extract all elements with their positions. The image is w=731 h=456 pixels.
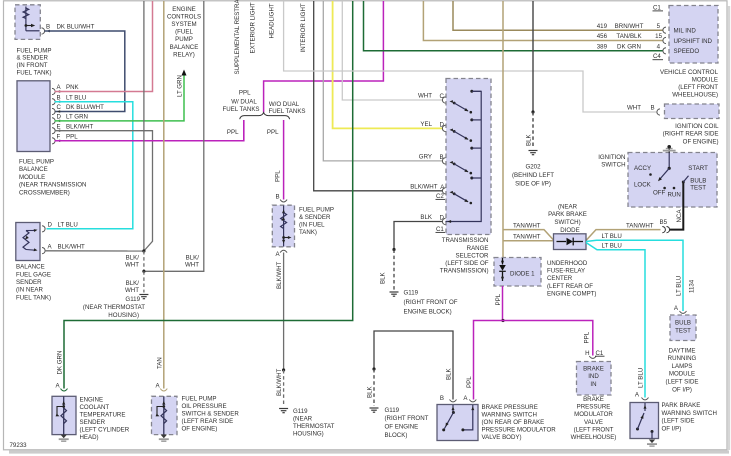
svg-text:LOCK: LOCK (634, 182, 652, 189)
svg-text:HEAD): HEAD) (80, 434, 99, 441)
engine coolant temperature sender box (52, 396, 76, 434)
svg-text:79233: 79233 (10, 442, 28, 449)
wire PPL to brake pressure warning switch pin A (474, 321, 504, 400)
svg-text:B: B (440, 395, 444, 402)
park brake switch diode box (554, 234, 587, 250)
svg-text:MIL IND: MIL IND (674, 28, 697, 35)
wire LT BLU diode to bulb test input (586, 240, 683, 311)
wire LT BLU diode to park brake switch (586, 243, 645, 398)
svg-text:B: B (57, 94, 61, 101)
selector moving contact (450, 161, 453, 164)
svg-text:BLK: BLK (445, 367, 452, 380)
svg-text:TEST: TEST (690, 185, 706, 192)
svg-text:TAN/WHT: TAN/WHT (513, 222, 541, 229)
svg-text:WHT: WHT (627, 105, 641, 112)
svg-text:TRANSMISSION): TRANSMISSION) (440, 268, 489, 275)
connector B5 double arc (662, 227, 665, 233)
wire TAN/BLK 456 to VCM pin 15 (423, 1, 662, 41)
svg-text:(LEFT FRONT: (LEFT FRONT (678, 84, 718, 91)
selector fixed contact (470, 118, 473, 121)
svg-text:DK BLU/WHT: DK BLU/WHT (57, 24, 95, 31)
svg-text:(NEAR TRANSMISSION: (NEAR TRANSMISSION (19, 182, 86, 189)
svg-text:MODULE: MODULE (692, 76, 718, 83)
svg-text:IGNITION: IGNITION (598, 154, 625, 161)
wire LT BLU pin B to balance sender pin D (47, 102, 133, 229)
svg-text:BLK/: BLK/ (126, 255, 140, 262)
svg-text:VALVE BODY): VALVE BODY) (482, 434, 522, 441)
svg-text:ACCY: ACCY (634, 165, 651, 172)
svg-text:FUEL TANKS: FUEL TANKS (268, 108, 305, 115)
pin A PNK of balance module (52, 88, 55, 94)
svg-text:G119: G119 (385, 407, 400, 414)
pin A of in-tank pump (280, 250, 287, 252)
svg-text:LT BLU: LT BLU (58, 222, 78, 229)
svg-text:(LEFT FRONT: (LEFT FRONT (574, 426, 614, 433)
wire PPL to brake pressure modulator valve (503, 321, 593, 356)
svg-text:RUNNING: RUNNING (668, 355, 697, 362)
svg-text:WHT: WHT (125, 287, 139, 294)
wire DK GRN rail to coolant sender (64, 1, 353, 389)
rail BLK/WHT to G119 near thermostat (143, 1, 145, 251)
svg-text:(LEFT CYLINDER: (LEFT CYLINDER (80, 426, 130, 433)
ground G119 near thermostat housing (139, 294, 148, 296)
svg-text:SELECTOR: SELECTOR (456, 252, 490, 259)
svg-text:PRESSURE MODULATOR: PRESSURE MODULATOR (482, 427, 557, 434)
pin B of front fuel pump (42, 28, 45, 34)
wire WHT to ignition coil (284, 1, 657, 112)
svg-text:& SENDER: & SENDER (299, 214, 331, 221)
svg-text:SWITCH & SENDER: SWITCH & SENDER (182, 411, 240, 418)
svg-text:BULB: BULB (675, 320, 691, 327)
svg-text:(LEFT REAR SIDE: (LEFT REAR SIDE (182, 418, 234, 425)
svg-text:DAYTIME: DAYTIME (669, 347, 696, 354)
svg-text:(IN NEAR: (IN NEAR (16, 287, 44, 294)
rail BLK to G202 (532, 1, 534, 112)
pin D LT BLU of balance sender (42, 226, 45, 232)
svg-text:C: C (57, 104, 62, 111)
wire BRN/WHT 419 to VCM pin 5 (453, 1, 663, 30)
svg-text:419: 419 (597, 23, 608, 30)
svg-text:PPL: PPL (239, 89, 251, 96)
svg-text:(RIGHT FRONT OF: (RIGHT FRONT OF (404, 299, 458, 306)
svg-text:TAN/WHT: TAN/WHT (626, 222, 654, 229)
warning switch contacts (452, 405, 454, 413)
svg-text:TAN/WHT: TAN/WHT (513, 234, 541, 241)
svg-text:MODULE: MODULE (669, 371, 695, 378)
svg-text:SIDE OF I/P): SIDE OF I/P) (515, 180, 551, 187)
balance fuel gage sender box (16, 223, 40, 261)
svg-text:BLK: BLK (526, 133, 533, 146)
svg-text:(RIGHT REAR SIDE: (RIGHT REAR SIDE (663, 131, 719, 138)
svg-text:DK BLU/WHT: DK BLU/WHT (66, 104, 104, 111)
svg-text:CONTROLS: CONTROLS (167, 13, 201, 20)
splice node BLK (531, 110, 534, 113)
svg-text:389: 389 (597, 43, 608, 50)
ignition coil pin arc (657, 109, 660, 115)
rail TAN to oil pressure sender (163, 1, 165, 389)
coolant sender thermistor symbol (63, 396, 65, 434)
svg-text:IND: IND (588, 373, 599, 380)
fuel pump & sender (in front fuel tank) box (15, 5, 40, 40)
svg-text:LT BLU: LT BLU (66, 94, 86, 101)
svg-text:PPL: PPL (275, 170, 282, 182)
diode 1 symbol (501, 260, 504, 263)
in-tank pump symbol (283, 206, 285, 247)
DIODE 1 box in underhood fuse-relay center (494, 258, 541, 287)
svg-text:PARK BRAKE: PARK BRAKE (662, 402, 701, 409)
svg-text:COOLANT: COOLANT (80, 404, 110, 411)
svg-text:ENGINE BLOCK): ENGINE BLOCK) (404, 309, 452, 316)
wire PPL pin F to dual-tank brace (55, 120, 244, 141)
svg-text:TEST: TEST (675, 328, 691, 335)
svg-text:BALANCE: BALANCE (19, 166, 48, 173)
PPL splice node (501, 319, 504, 322)
svg-text:BLK/WHT: BLK/WHT (276, 368, 283, 396)
selector moving contact (450, 100, 453, 103)
svg-text:BLK/WHT: BLK/WHT (58, 243, 86, 250)
svg-text:F: F (57, 134, 61, 141)
svg-text:SWITCH): SWITCH) (554, 219, 580, 226)
coolant sender chassis ground (61, 435, 67, 439)
svg-text:FUEL PUMP: FUEL PUMP (17, 47, 52, 54)
svg-text:PPL: PPL (495, 293, 502, 305)
pin F PPL of balance module (52, 138, 55, 144)
pin A arc (469, 400, 476, 402)
svg-text:SWITCH: SWITCH (601, 162, 625, 169)
pin A BLK/WHT of balance sender (42, 248, 45, 254)
svg-text:MODULE: MODULE (19, 174, 45, 181)
svg-text:FUEL PUMP: FUEL PUMP (19, 159, 54, 166)
svg-text:LT BLU: LT BLU (675, 276, 682, 296)
wire NCA from bulb test contact to B5 (669, 183, 683, 230)
svg-text:D: D (48, 222, 53, 229)
svg-text:FUEL TANKS: FUEL TANKS (222, 106, 259, 113)
svg-text:B: B (46, 24, 50, 31)
fuel pump oil pressure switch & sender box (152, 396, 178, 434)
svg-text:G119: G119 (293, 408, 308, 415)
svg-text:TAN: TAN (157, 357, 164, 369)
wire TAN/WHT upper branch to diode and B5 (503, 230, 554, 240)
svg-text:UPSHIFT IND: UPSHIFT IND (674, 38, 713, 45)
fuel pump balance module box (17, 81, 50, 152)
svg-text:BLK/WHT: BLK/WHT (410, 183, 438, 190)
svg-text:WHT: WHT (418, 93, 432, 100)
svg-text:LT GRN: LT GRN (177, 75, 184, 97)
selector moving contact (450, 128, 453, 131)
svg-text:OFF: OFF (653, 190, 666, 197)
svg-text:DK GRN: DK GRN (57, 351, 64, 375)
park brake warning switch pin arc (642, 398, 649, 400)
svg-text:(NEAR: (NEAR (558, 203, 578, 210)
svg-text:(RIGHT FRONT: (RIGHT FRONT (385, 415, 429, 422)
svg-text:BLK/WHT: BLK/WHT (276, 261, 283, 289)
svg-text:OF ENGINE: OF ENGINE (385, 424, 419, 431)
park brake switch chassis ground (649, 440, 655, 444)
svg-text:B5: B5 (660, 219, 668, 226)
VCM pin arcs (663, 27, 666, 33)
svg-text:PPL: PPL (227, 129, 239, 136)
svg-text:THERMOSTAT: THERMOSTAT (293, 423, 335, 430)
wire BLK selector pin D to G119 (394, 222, 443, 250)
fuel pump & sender (in fuel tank) box (272, 205, 294, 247)
svg-text:TEMPERATURE: TEMPERATURE (80, 411, 126, 418)
svg-text:RELAY): RELAY) (173, 51, 195, 58)
svg-text:LT GRN: LT GRN (66, 114, 88, 121)
svg-text:CENTER: CENTER (547, 275, 573, 282)
svg-text:INTERIOR LIGHT: INTERIOR LIGHT (300, 3, 307, 52)
svg-text:H: H (585, 350, 589, 357)
svg-text:BRAKE PRESSURE: BRAKE PRESSURE (482, 404, 538, 411)
svg-text:HEADLIGHT: HEADLIGHT (269, 3, 276, 38)
selector moving contact (450, 191, 453, 194)
svg-text:W/O DUAL: W/O DUAL (269, 101, 300, 108)
wire LT GRN pin D to engine controls system arrow (55, 74, 185, 121)
selector pin arcs (442, 97, 445, 103)
selector fixed contact (470, 90, 473, 93)
svg-text:RUN: RUN (668, 191, 681, 198)
svg-text:OF ENGINE): OF ENGINE) (182, 426, 218, 433)
ground G119 right front of engine block (390, 291, 399, 293)
svg-text:E: E (57, 123, 61, 130)
svg-text:FUEL TANK): FUEL TANK) (16, 294, 51, 301)
svg-text:START: START (688, 165, 708, 172)
dual fuel tanks brace (240, 113, 290, 120)
wire YEL rail to selector pin D (333, 1, 443, 128)
selector fixed contact (470, 147, 473, 150)
ignition switch box (628, 153, 717, 208)
svg-text:SPEEDO: SPEEDO (674, 48, 700, 55)
svg-text:PRESSURE: PRESSURE (577, 404, 611, 411)
pin C DK BLU/WHT of balance module (52, 108, 55, 114)
svg-text:IN: IN (590, 381, 596, 388)
wire TAN/WHT lower branch into diode (503, 240, 554, 242)
svg-text:OIL PRESSURE: OIL PRESSURE (182, 403, 227, 410)
arrow to engine controls system (181, 70, 186, 76)
wire PPL from DIODE 1 down to splice (502, 286, 504, 321)
selector fixed contact (470, 177, 473, 180)
wire WHT rail to selector pin C (342, 1, 443, 100)
svg-text:B: B (440, 154, 444, 161)
rail TAN/WHT from top to DIODE 1 (502, 1, 504, 258)
svg-text:PARK BRAKE: PARK BRAKE (548, 211, 587, 218)
svg-text:BALANCE: BALANCE (170, 44, 199, 51)
svg-text:TRANSMISSION: TRANSMISSION (442, 237, 489, 244)
svg-text:1134: 1134 (689, 279, 696, 293)
wire DK BLU/WHT from front pump B to balance module C (45, 31, 125, 112)
svg-text:BLK: BLK (420, 214, 433, 221)
svg-text:LT BLU: LT BLU (602, 243, 622, 250)
svg-text:BRN/WHT: BRN/WHT (615, 23, 644, 30)
svg-text:TANK): TANK) (299, 229, 317, 236)
svg-text:CROSSMEMBER): CROSSMEMBER) (19, 189, 70, 196)
svg-text:GRY: GRY (419, 154, 432, 161)
svg-text:G202: G202 (525, 163, 541, 170)
svg-text:B: B (651, 105, 655, 112)
front pump symbol (25, 7, 27, 31)
svg-text:LT BLU: LT BLU (602, 233, 622, 240)
svg-text:(LEFT SIDE: (LEFT SIDE (662, 418, 695, 425)
svg-text:ENGINE: ENGINE (80, 396, 104, 403)
pin E BLK/WHT of balance module (52, 128, 55, 134)
park brake warning switch box (630, 403, 659, 439)
svg-text:456: 456 (597, 33, 608, 40)
ignition coil box (665, 104, 720, 119)
pin H arc of brake pressure modulator valve (589, 356, 596, 358)
svg-text:BLK: BLK (380, 271, 387, 284)
ignition switch lever to LOCK (660, 168, 670, 179)
svg-text:WHEELHOUSE): WHEELHOUSE) (672, 92, 718, 99)
ground G119 right front of engine block (second) (370, 407, 379, 409)
pin B LT BLU of balance module (52, 99, 55, 105)
svg-text:VALVE: VALVE (584, 419, 603, 426)
wire BLK/WHT pin E down to G119 splice (55, 131, 153, 251)
svg-text:UNDERHOOD: UNDERHOOD (547, 260, 588, 267)
svg-text:PNK: PNK (66, 84, 80, 91)
transmission range selector box (446, 79, 491, 235)
rail PPL from top (264, 1, 384, 113)
ignition switch rotor line (668, 153, 670, 169)
svg-text:WARNING SWITCH: WARNING SWITCH (662, 410, 717, 417)
svg-text:(NEAR THERMOSTAT: (NEAR THERMOSTAT (83, 304, 145, 311)
svg-text:W/ DUAL: W/ DUAL (231, 99, 257, 106)
wire BLK/WHT pin A to splice (45, 250, 144, 252)
svg-text:PPL: PPL (466, 376, 473, 388)
svg-text:SENDER: SENDER (16, 279, 42, 286)
park brake switch contacts (644, 403, 646, 411)
svg-text:OF I/P): OF I/P) (662, 425, 682, 432)
svg-text:(LEFT REAR OF: (LEFT REAR OF (547, 283, 593, 290)
svg-text:BLK: BLK (367, 385, 374, 398)
svg-text:ENGINE COMPT): ENGINE COMPT) (547, 291, 596, 298)
svg-text:ENGINE: ENGINE (172, 6, 196, 13)
svg-text:YEL: YEL (420, 121, 432, 128)
svg-text:OF I/P): OF I/P) (672, 386, 692, 393)
oil pressure sender pin arc (160, 389, 167, 391)
svg-text:WHT: WHT (185, 262, 199, 269)
svg-text:NCA: NCA (676, 209, 683, 223)
svg-text:SUPPLEMENTAL RESTRAINT: SUPPLEMENTAL RESTRAINT (234, 0, 241, 75)
svg-text:(IN FRONT: (IN FRONT (17, 62, 48, 69)
svg-text:D: D (57, 114, 62, 121)
pin B of in-tank pump (280, 200, 287, 202)
svg-text:TAN/BLK: TAN/BLK (616, 33, 642, 40)
svg-text:4: 4 (657, 43, 661, 50)
oil sender chassis ground (161, 435, 167, 439)
svg-text:SENDER: SENDER (80, 419, 106, 426)
svg-text:PPL: PPL (66, 134, 78, 141)
svg-text:WHEELHOUSE): WHEELHOUSE) (571, 434, 617, 441)
coolant sender pin arc (61, 389, 68, 391)
svg-text:VEHICLE CONTROL: VEHICLE CONTROL (660, 69, 719, 76)
svg-text:FUSE-RELAY: FUSE-RELAY (547, 268, 585, 275)
wire PPL with dual tanks branch to pin F (243, 120, 245, 141)
ground G202 (529, 150, 538, 152)
brake ind in box (577, 362, 612, 396)
svg-text:BRAKE: BRAKE (583, 366, 604, 373)
wire PPL without dual tanks branch to in-tank pump (283, 120, 285, 200)
svg-text:5: 5 (657, 23, 661, 30)
svg-text:15: 15 (655, 33, 662, 40)
pin B arc (450, 400, 457, 402)
svg-text:FUEL PUMP: FUEL PUMP (182, 396, 217, 403)
svg-text:WHT: WHT (125, 262, 139, 269)
svg-text:C1: C1 (653, 4, 661, 11)
diode symbol (557, 241, 567, 243)
svg-text:BULB: BULB (690, 177, 706, 184)
wire BLK brake warning switch B to G119 (374, 331, 453, 400)
ground G119 near thermostat housing (second) (279, 408, 288, 410)
svg-text:C4: C4 (653, 53, 661, 60)
svg-text:FUEL TANK): FUEL TANK) (17, 70, 52, 77)
svg-text:HOUSING): HOUSING) (293, 431, 324, 438)
vehicle control module box (669, 6, 718, 64)
svg-text:(FUEL: (FUEL (175, 29, 193, 36)
svg-text:B: B (276, 194, 280, 201)
wire BLK/WHT rail to selector pin A (314, 1, 443, 191)
ignition switch battery feed symbol (668, 146, 670, 153)
svg-text:SYSTEM: SYSTEM (171, 21, 196, 28)
svg-text:(LEFT SIDE: (LEFT SIDE (666, 379, 699, 386)
svg-text:EXTERIOR LIGHT: EXTERIOR LIGHT (250, 2, 257, 53)
splice node (282, 368, 285, 371)
svg-text:BLOCK): BLOCK) (385, 432, 408, 439)
bulb test box (670, 315, 696, 341)
svg-text:HOUSING): HOUSING) (108, 312, 139, 319)
pin D LT GRN of balance module (52, 118, 55, 124)
svg-text:PPL: PPL (267, 129, 279, 136)
svg-text:& SENDER: & SENDER (17, 55, 49, 62)
selector common rail (446, 91, 482, 221)
svg-text:PPL: PPL (583, 331, 590, 343)
svg-text:FUEL GAGE: FUEL GAGE (16, 271, 51, 278)
svg-text:BLK/: BLK/ (126, 280, 140, 287)
svg-text:FUEL PUMP: FUEL PUMP (299, 206, 334, 213)
splice node BLK (372, 367, 375, 370)
svg-text:DIODE: DIODE (560, 227, 579, 234)
svg-text:(NEAR: (NEAR (293, 416, 313, 423)
oil sender symbol (163, 396, 165, 434)
svg-text:(LEFT SIDE OF: (LEFT SIDE OF (445, 260, 488, 267)
svg-text:WARNING SWITCH: WARNING SWITCH (482, 411, 537, 418)
wire BLK/WHT in-tank pump A to G119 (283, 253, 285, 371)
bulb test pin arc (680, 311, 687, 313)
svg-text:PUMP: PUMP (175, 36, 193, 43)
splice node BLK (392, 248, 395, 251)
svg-text:LAMPS: LAMPS (672, 363, 693, 370)
svg-text:LT BLU: LT BLU (637, 368, 644, 388)
svg-text:BALANCE: BALANCE (16, 264, 45, 271)
splice node BLK/WHT (142, 249, 145, 252)
svg-text:(BEHIND LEFT: (BEHIND LEFT (512, 172, 554, 179)
rail BLK/WHT second to splice (146, 1, 204, 271)
svg-text:G119: G119 (404, 290, 419, 297)
balance sender gauge symbol (23, 231, 29, 250)
svg-text:BRAKE: BRAKE (583, 396, 604, 403)
svg-text:OF ENGINE): OF ENGINE) (683, 138, 719, 145)
svg-text:BLK/WHT: BLK/WHT (66, 123, 94, 130)
svg-text:DK GRN: DK GRN (617, 43, 641, 50)
wire GRY rail to selector pin B (323, 1, 443, 161)
svg-text:G119: G119 (125, 296, 140, 303)
wire DK GRN 389 to VCM pin 4 (364, 1, 663, 51)
svg-text:BLK/: BLK/ (186, 255, 200, 262)
svg-text:(IN FUEL: (IN FUEL (299, 222, 325, 229)
svg-text:RANGE: RANGE (467, 245, 489, 252)
svg-text:IGNITION COIL: IGNITION COIL (675, 123, 719, 130)
wire PNK from pin A up to top edge (55, 1, 153, 92)
svg-text:DIODE 1: DIODE 1 (510, 271, 535, 278)
svg-text:(ON REAR OF BRAKE: (ON REAR OF BRAKE (482, 419, 545, 426)
